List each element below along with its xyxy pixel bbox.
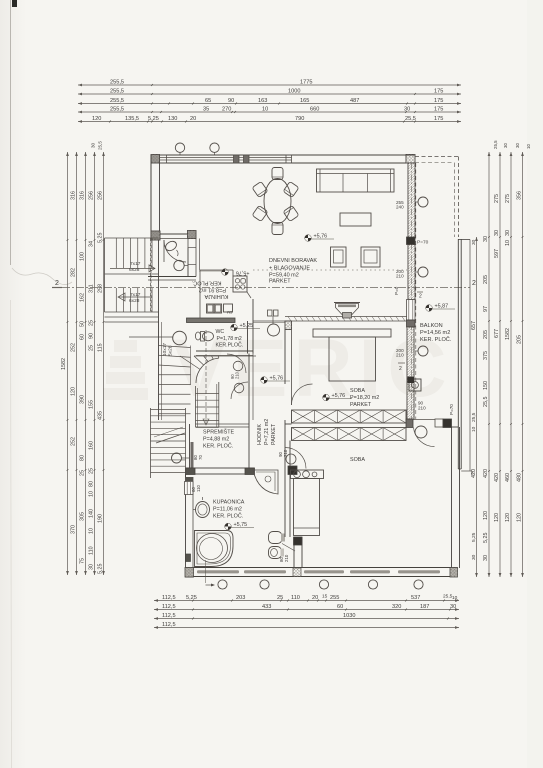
svg-text:175: 175 bbox=[434, 116, 443, 122]
svg-text:110: 110 bbox=[196, 484, 201, 492]
svg-text:270: 270 bbox=[222, 107, 231, 113]
svg-text:316: 316 bbox=[80, 191, 86, 200]
svg-text:135,5: 135,5 bbox=[125, 116, 139, 122]
svg-text:1582: 1582 bbox=[505, 328, 511, 340]
svg-text:10: 10 bbox=[471, 426, 477, 432]
svg-text:190: 190 bbox=[98, 514, 104, 523]
svg-text:305: 305 bbox=[80, 512, 86, 521]
top dimension lines bbox=[78, 84, 461, 86]
svg-text:80: 80 bbox=[80, 455, 86, 461]
svg-text:+5,75: +5,75 bbox=[234, 522, 248, 528]
svg-text:HODNIK: HODNIK bbox=[257, 424, 263, 445]
svg-text:60: 60 bbox=[80, 334, 86, 340]
svg-text:75: 75 bbox=[80, 558, 86, 564]
svg-text:2: 2 bbox=[55, 280, 59, 287]
svg-text:SOBA: SOBA bbox=[350, 388, 365, 394]
svg-text:30: 30 bbox=[471, 239, 477, 245]
svg-text:PARKET: PARKET bbox=[271, 423, 277, 445]
svg-text:252: 252 bbox=[71, 343, 77, 352]
svg-text:10: 10 bbox=[452, 595, 458, 601]
svg-text:KUPAONICA: KUPAONICA bbox=[213, 500, 245, 506]
balcony door from bedroom area bbox=[406, 419, 413, 428]
external steps lower-left bbox=[150, 408, 152, 478]
svg-text:5,25: 5,25 bbox=[148, 116, 159, 122]
column marker circles top bbox=[175, 143, 184, 152]
svg-text:420: 420 bbox=[494, 473, 500, 482]
lower bedroom bbox=[451, 427, 453, 568]
svg-text:205: 205 bbox=[483, 330, 489, 339]
svg-text:311: 311 bbox=[89, 284, 95, 293]
column marker circles bottom bbox=[218, 580, 227, 589]
svg-text:660: 660 bbox=[310, 107, 319, 113]
svg-text:25,5: 25,5 bbox=[405, 116, 416, 122]
svg-text:+ BLAGOVANJE: + BLAGOVANJE bbox=[269, 266, 310, 272]
svg-text:P=18,20 m2: P=18,20 m2 bbox=[350, 395, 379, 401]
svg-text:25: 25 bbox=[89, 320, 95, 326]
svg-text:KER. PLOČ.: KER. PLOČ. bbox=[203, 443, 233, 450]
svg-text:2: 2 bbox=[399, 366, 402, 372]
svg-text:390: 390 bbox=[80, 395, 86, 404]
entry stairs (upper-left flights) bbox=[104, 238, 106, 312]
svg-text:175: 175 bbox=[434, 107, 443, 113]
svg-text:90: 90 bbox=[89, 333, 95, 339]
svg-text:120: 120 bbox=[92, 116, 101, 122]
kitchen bbox=[200, 269, 233, 271]
wardrobe crosshatch strips bbox=[292, 410, 407, 423]
svg-text:256: 256 bbox=[89, 191, 95, 200]
upper bedroom SOBA bbox=[285, 316, 407, 318]
svg-text:10x17: 10x17 bbox=[162, 343, 168, 356]
svg-text:112,5: 112,5 bbox=[162, 613, 176, 619]
svg-text:SPREMIŠTE: SPREMIŠTE bbox=[203, 429, 235, 436]
svg-text:25,5: 25,5 bbox=[98, 141, 103, 150]
left dimension lines bbox=[67, 152, 69, 575]
svg-text:30: 30 bbox=[91, 142, 96, 148]
svg-text:70: 70 bbox=[198, 455, 203, 460]
svg-text:30: 30 bbox=[503, 143, 508, 148]
svg-text:255: 255 bbox=[330, 595, 339, 601]
svg-text:30: 30 bbox=[483, 555, 489, 561]
svg-text:+5,76: +5,76 bbox=[270, 376, 284, 382]
svg-text:P=70: P=70 bbox=[417, 240, 429, 246]
svg-text:210: 210 bbox=[284, 554, 289, 562]
svg-text:210: 210 bbox=[235, 371, 240, 379]
balcony bbox=[415, 163, 417, 419]
svg-text:162: 162 bbox=[80, 293, 86, 302]
watermark bbox=[103, 340, 148, 400]
svg-text:115: 115 bbox=[98, 343, 104, 352]
bathroom bbox=[185, 474, 187, 577]
svg-text:65: 65 bbox=[205, 98, 211, 104]
svg-text:175: 175 bbox=[434, 98, 443, 104]
svg-text:97: 97 bbox=[483, 306, 489, 312]
svg-text:677: 677 bbox=[494, 329, 500, 338]
svg-text:210: 210 bbox=[418, 406, 426, 411]
svg-text:790: 790 bbox=[295, 116, 304, 122]
svg-text:P=0: P=0 bbox=[394, 286, 399, 295]
svg-text:120: 120 bbox=[483, 511, 489, 520]
svg-text:420: 420 bbox=[483, 469, 489, 478]
svg-text:25,5: 25,5 bbox=[483, 397, 489, 408]
svg-text:7x17: 7x17 bbox=[130, 292, 141, 298]
svg-text:30: 30 bbox=[89, 564, 95, 570]
svg-text:KER.PLOČ.: KER.PLOČ. bbox=[216, 342, 244, 349]
hallway wall and hodnik text bbox=[248, 354, 250, 474]
svg-text:435: 435 bbox=[98, 411, 104, 420]
svg-text:163: 163 bbox=[258, 98, 267, 104]
svg-text:375: 375 bbox=[483, 351, 489, 360]
svg-text:P=1,78 m2: P=1,78 m2 bbox=[217, 336, 242, 342]
svg-text:205: 205 bbox=[483, 275, 489, 284]
svg-text:5,25: 5,25 bbox=[471, 532, 477, 542]
svg-text:255,5: 255,5 bbox=[110, 80, 124, 86]
svg-text:165: 165 bbox=[300, 98, 309, 104]
left wall upper bbox=[150, 155, 152, 240]
svg-text:210: 210 bbox=[396, 274, 404, 279]
svg-text:5x28: 5x28 bbox=[168, 345, 174, 356]
svg-text:1000: 1000 bbox=[288, 89, 300, 95]
stair hall / winder stair bbox=[158, 322, 160, 420]
svg-text:P=11,06 m2: P=11,06 m2 bbox=[213, 507, 242, 513]
svg-text:34: 34 bbox=[89, 241, 95, 247]
svg-text:30: 30 bbox=[471, 554, 477, 560]
svg-text:25: 25 bbox=[89, 468, 95, 474]
svg-text:KER. PLOČ.: KER. PLOČ. bbox=[420, 336, 452, 343]
svg-text:15: 15 bbox=[322, 594, 328, 600]
svg-text:140: 140 bbox=[89, 509, 95, 518]
svg-text:25: 25 bbox=[277, 595, 283, 601]
svg-text:2: 2 bbox=[472, 280, 476, 287]
svg-text:30: 30 bbox=[494, 230, 500, 236]
svg-text:25,5: 25,5 bbox=[471, 412, 477, 422]
svg-text:1030: 1030 bbox=[343, 613, 355, 619]
svg-text:433: 433 bbox=[262, 604, 271, 610]
svg-text:112,5: 112,5 bbox=[162, 595, 176, 601]
svg-text:130: 130 bbox=[168, 116, 177, 122]
right dimension lines bbox=[488, 152, 490, 577]
svg-text:487: 487 bbox=[350, 98, 359, 104]
svg-text:210: 210 bbox=[396, 353, 404, 358]
svg-text:256: 256 bbox=[98, 191, 104, 200]
svg-text:175: 175 bbox=[434, 89, 443, 95]
svg-text:5,25: 5,25 bbox=[98, 564, 104, 575]
svg-text:20: 20 bbox=[190, 116, 196, 122]
vestibule / entry WC bbox=[150, 240, 152, 312]
svg-text:WC: WC bbox=[216, 329, 225, 335]
svg-text:5,25: 5,25 bbox=[98, 233, 104, 244]
svg-text:110: 110 bbox=[291, 595, 300, 601]
svg-text:+5,76: +5,76 bbox=[314, 234, 328, 240]
svg-text:110: 110 bbox=[89, 546, 95, 555]
svg-text:90: 90 bbox=[228, 98, 234, 104]
svg-text:P=14,56 m2: P=14,56 m2 bbox=[420, 330, 450, 336]
svg-text:10: 10 bbox=[505, 240, 511, 246]
svg-text:5,25: 5,25 bbox=[186, 595, 197, 601]
svg-text:120: 120 bbox=[505, 513, 511, 522]
svg-text:203: 203 bbox=[236, 595, 245, 601]
svg-text:597: 597 bbox=[494, 249, 500, 258]
svg-text:100: 100 bbox=[80, 252, 86, 261]
section line 2 bbox=[62, 287, 470, 289]
svg-text:320: 320 bbox=[392, 604, 401, 610]
svg-text:460: 460 bbox=[505, 473, 511, 482]
svg-text:282: 282 bbox=[71, 268, 77, 277]
svg-text:10: 10 bbox=[262, 107, 268, 113]
svg-text:20: 20 bbox=[312, 595, 318, 601]
svg-text:120: 120 bbox=[517, 513, 523, 522]
svg-text:80: 80 bbox=[89, 481, 95, 487]
svg-text:PARKET: PARKET bbox=[269, 279, 291, 285]
storage room bbox=[189, 424, 191, 473]
svg-text:275: 275 bbox=[494, 194, 500, 203]
svg-text:+5,87: +5,87 bbox=[435, 304, 449, 310]
svg-text:205: 205 bbox=[517, 335, 523, 344]
svg-text:370: 370 bbox=[71, 525, 77, 534]
svg-text:+5,25: +5,25 bbox=[240, 323, 254, 329]
bottom wall with windows bbox=[185, 567, 458, 569]
svg-text:P=8,91 m2: P=8,91 m2 bbox=[199, 287, 226, 293]
svg-text:657: 657 bbox=[471, 321, 477, 330]
svg-text:255,5: 255,5 bbox=[110, 89, 124, 95]
svg-text:7x17: 7x17 bbox=[130, 261, 141, 267]
svg-text:112,5: 112,5 bbox=[162, 604, 176, 610]
svg-text:537: 537 bbox=[411, 595, 420, 601]
svg-text:1775: 1775 bbox=[300, 80, 312, 86]
svg-text:KER.PLOČ.: KER.PLOČ. bbox=[191, 280, 221, 287]
svg-text:187: 187 bbox=[420, 604, 429, 610]
svg-text:155: 155 bbox=[89, 400, 95, 409]
svg-text:356: 356 bbox=[517, 191, 523, 200]
living room furniture bbox=[264, 179, 291, 224]
svg-text:255,5: 255,5 bbox=[110, 107, 124, 113]
wc (small) bbox=[247, 321, 249, 354]
svg-text:SM: SM bbox=[227, 310, 232, 314]
svg-text:KUHINJA: KUHINJA bbox=[204, 293, 228, 299]
svg-text:+5,76: +5,76 bbox=[236, 269, 250, 275]
svg-text:255,5: 255,5 bbox=[110, 98, 124, 104]
svg-text:240: 240 bbox=[396, 205, 404, 210]
svg-text:PARKET: PARKET bbox=[350, 402, 372, 408]
bottom dimension lines bbox=[154, 600, 459, 602]
building outer walls bbox=[151, 154, 415, 156]
svg-text:120: 120 bbox=[71, 387, 77, 396]
svg-text:30: 30 bbox=[483, 236, 489, 242]
svg-text:252: 252 bbox=[71, 437, 77, 446]
svg-text:25,5: 25,5 bbox=[493, 140, 498, 149]
svg-text:160: 160 bbox=[89, 441, 95, 450]
svg-text:30: 30 bbox=[515, 143, 520, 148]
svg-text:150: 150 bbox=[483, 381, 489, 390]
svg-text:6x28: 6x28 bbox=[129, 267, 140, 273]
svg-text:P=4,88 m2: P=4,88 m2 bbox=[203, 437, 229, 443]
right wall upper (hatched) bbox=[408, 163, 415, 238]
paper scan artifacts bbox=[10, 0, 12, 265]
svg-text:6x28: 6x28 bbox=[129, 298, 140, 304]
svg-text:BALKON: BALKON bbox=[420, 323, 443, 329]
svg-text:275: 275 bbox=[505, 194, 511, 203]
svg-text:30: 30 bbox=[505, 230, 511, 236]
svg-text:10: 10 bbox=[526, 144, 531, 149]
svg-text:298: 298 bbox=[98, 284, 104, 293]
svg-text:SOBA: SOBA bbox=[350, 457, 365, 463]
svg-text:35: 35 bbox=[203, 107, 209, 113]
svg-text:5,25: 5,25 bbox=[483, 533, 489, 544]
svg-text:2: 2 bbox=[419, 294, 422, 300]
svg-text:316: 316 bbox=[71, 191, 77, 200]
svg-text:120: 120 bbox=[494, 513, 500, 522]
svg-text:1582: 1582 bbox=[61, 358, 67, 370]
svg-text:25: 25 bbox=[89, 345, 95, 351]
svg-text:112,5: 112,5 bbox=[162, 622, 176, 628]
svg-text:P=70: P=70 bbox=[449, 404, 454, 415]
svg-text:KER. PLOČ.: KER. PLOČ. bbox=[213, 513, 243, 520]
svg-text:30: 30 bbox=[404, 107, 410, 113]
svg-text:480: 480 bbox=[517, 473, 523, 482]
svg-text:+5,76: +5,76 bbox=[332, 393, 346, 399]
svg-text:10: 10 bbox=[89, 528, 95, 534]
svg-text:P=7,21 m2: P=7,21 m2 bbox=[264, 419, 270, 445]
svg-text:10: 10 bbox=[89, 491, 95, 497]
svg-text:DNEVNI BORAVAK: DNEVNI BORAVAK bbox=[269, 258, 317, 264]
svg-text:60: 60 bbox=[337, 604, 343, 610]
svg-text:25: 25 bbox=[80, 470, 86, 476]
svg-text:50: 50 bbox=[80, 321, 86, 327]
